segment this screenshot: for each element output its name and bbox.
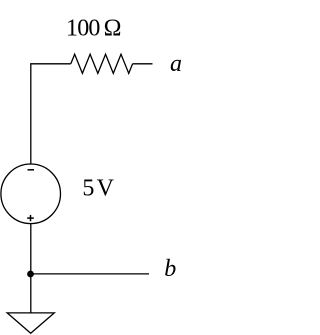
value label 5 V	[82, 176, 114, 202]
wire top-left horizontal	[31, 63, 71, 65]
node junction dot	[27, 271, 34, 278]
ground symbol	[7, 313, 54, 333]
wire node to ground	[30, 274, 32, 313]
plus terminal mark	[27, 215, 34, 221]
resistor 100Ω zigzag	[71, 54, 133, 73]
svg-text:V: V	[97, 176, 115, 202]
voltage source circle	[1, 164, 61, 224]
wire source to node	[30, 224, 32, 274]
svg-text:100 Ω: 100 Ω	[66, 16, 121, 42]
minus terminal mark	[28, 169, 35, 171]
wire resistor to terminal a	[133, 63, 153, 65]
wire node to terminal b	[31, 273, 149, 275]
svg-text:a: a	[170, 51, 182, 77]
svg-text:b: b	[164, 256, 176, 282]
svg-text:5: 5	[82, 176, 94, 202]
wire left vertical to source	[30, 63, 32, 164]
